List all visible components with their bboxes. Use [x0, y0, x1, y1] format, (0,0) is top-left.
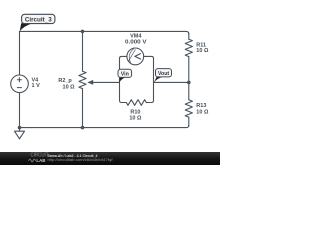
wire Vin node up to voltmeter [120, 56, 127, 82]
svg-text:10 Ω: 10 Ω [63, 84, 76, 90]
voltmeter VM4 chevron arrowhead [135, 54, 141, 59]
svg-text:R13: R13 [196, 103, 206, 109]
wire Vin node down to R10 [120, 82, 127, 102]
svg-text:R2_p: R2_p [58, 78, 72, 84]
svg-text:10 Ω: 10 Ω [196, 110, 209, 116]
svg-text:Vout: Vout [158, 71, 170, 77]
wire Vout node to right rail [154, 81, 189, 83]
svg-text:1 V: 1 V [32, 83, 41, 89]
svg-text:10 Ω: 10 Ω [196, 48, 209, 54]
V4 plus sign [17, 77, 22, 87]
svg-text:0.000 V: 0.000 V [125, 39, 147, 45]
ground symbol [15, 128, 25, 139]
wire right rail middle [188, 57, 190, 100]
node flag Vout [154, 69, 172, 83]
resistor R10 zigzag [126, 100, 146, 106]
wire left rail upper [19, 31, 21, 75]
resistor R2_p zigzag [79, 71, 86, 88]
svg-text:Vin: Vin [121, 72, 129, 78]
V4 minus sign [17, 87, 22, 89]
wire wiper to Vin node [92, 81, 120, 83]
junction node bottom of R2_p [81, 126, 85, 130]
svg-text:Circuit_3: Circuit_3 [25, 17, 52, 24]
wire left rail lower [19, 93, 21, 128]
junction node top of R2_p [81, 30, 85, 34]
footer bar [0, 152, 220, 165]
node flag Vin [118, 69, 132, 83]
voltmeter VM4 inner needle [129, 50, 136, 62]
voltmeter VM4 inner arc [129, 49, 133, 63]
resistor R2_p body wires [82, 31, 84, 71]
wire voltmeter right lead [144, 56, 154, 82]
svg-text:10 Ω: 10 Ω [129, 116, 142, 122]
node flag Circuit_3 [20, 14, 55, 31]
wire top rail [20, 31, 189, 34]
svg-text:http://circuitlab.com/c6d44bb4: http://circuitlab.com/c6d44bb447fqf [48, 157, 114, 162]
junction node Vout on right rail [187, 81, 191, 85]
voltage source V4 circle [11, 75, 29, 93]
wire R10 right to Vout node [146, 82, 153, 102]
resistor R13 [185, 100, 192, 117]
potentiometer wiper arrow [87, 80, 93, 85]
resistor R11 [185, 39, 192, 56]
svg-text:R10: R10 [130, 109, 140, 115]
wire bottom rail [20, 125, 189, 128]
svg-text:LAB: LAB [36, 158, 46, 163]
wire right rail lower [188, 117, 190, 126]
footer logo wave [28, 159, 36, 162]
voltmeter VM4 circle [127, 48, 144, 65]
wire right rail upper [188, 33, 190, 39]
junction node ground [18, 126, 22, 130]
